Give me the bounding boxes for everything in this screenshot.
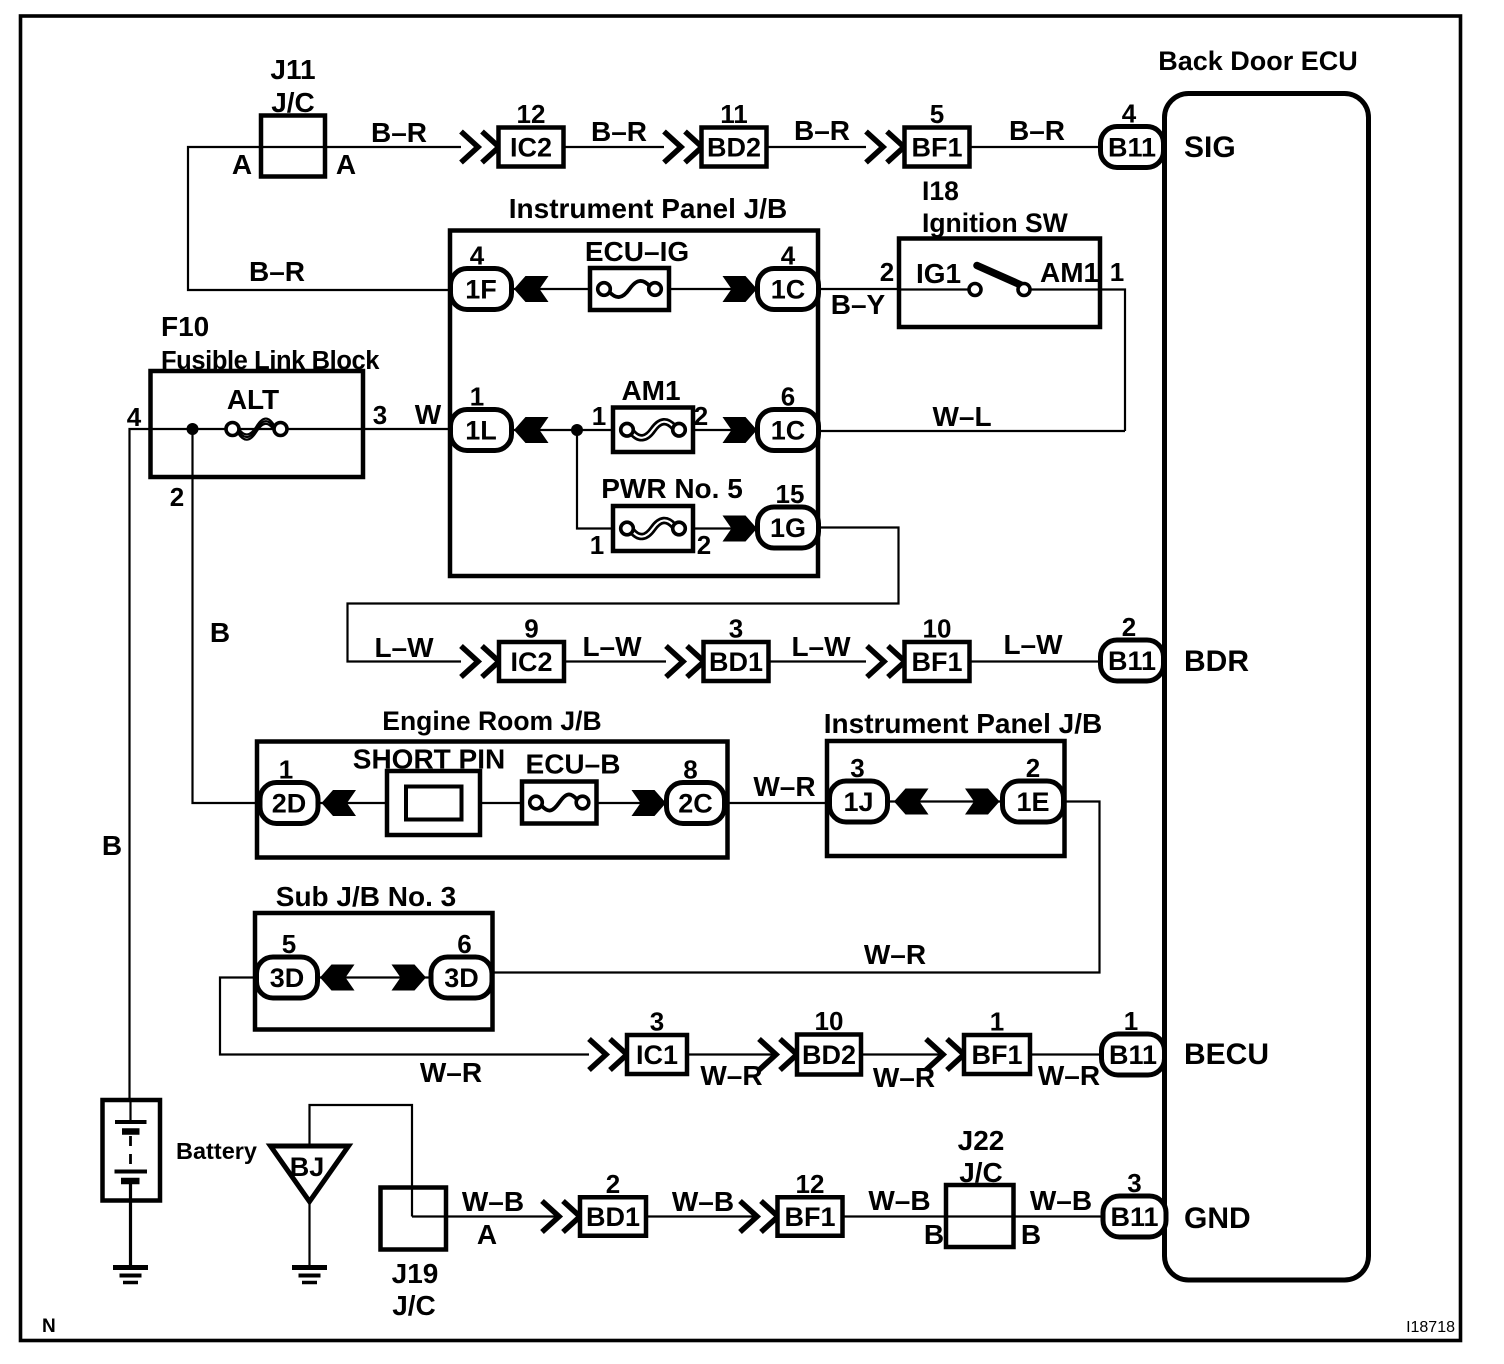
svg-text:B: B (102, 830, 122, 861)
connector B11 pin 1 (BECU) (1102, 1006, 1165, 1075)
wire to fuse PWR No.5 (577, 430, 613, 529)
svg-text:8: 8 (683, 755, 697, 785)
svg-text:11: 11 (720, 99, 748, 129)
svg-text:2C: 2C (678, 789, 713, 819)
wire (511, 429, 613, 431)
feed arrow (to 1F) (514, 276, 549, 302)
junction node (F10) (187, 423, 199, 435)
svg-text:10: 10 (923, 614, 952, 644)
svg-text:3: 3 (850, 753, 864, 783)
svg-text:2: 2 (606, 1169, 620, 1199)
Back Door ECU body (1165, 94, 1369, 1281)
svg-text:B11: B11 (1110, 1202, 1158, 1232)
wire (412, 1215, 561, 1217)
wire F10 pin2 to 2D (B) (193, 429, 262, 803)
wire 3D to BECU feed (W-R) (220, 978, 589, 1055)
connector BD1 pin 2 (580, 1169, 646, 1236)
connector 2C pin 8 (667, 755, 725, 824)
connector BD2 pin 11 (702, 99, 767, 167)
fusible link block F10 box (151, 371, 364, 477)
svg-text:AM1: AM1 (1040, 257, 1099, 288)
wire BJ to J19 (W-B) (310, 1105, 413, 1217)
svg-text:F10: F10 (161, 311, 209, 342)
svg-text:2: 2 (1026, 753, 1040, 783)
svg-text:B11: B11 (1108, 133, 1156, 163)
wire (363, 428, 452, 430)
feed arrow (to 2C) (632, 790, 667, 816)
svg-text:3: 3 (1127, 1168, 1141, 1198)
svg-text:10: 10 (815, 1006, 844, 1036)
svg-text:12: 12 (796, 1169, 825, 1199)
wire J11 to 1F (B-R) (188, 147, 452, 290)
svg-text:W–B: W–B (868, 1185, 930, 1216)
svg-text:BD1: BD1 (709, 647, 763, 677)
svg-text:L–W: L–W (374, 632, 434, 663)
svg-text:ALT: ALT (227, 384, 279, 415)
svg-text:3: 3 (729, 614, 743, 644)
connector BF1 pin 10 (905, 614, 970, 682)
switch contact AM1 (1018, 284, 1030, 296)
feed arrow (to 3D pin6) (392, 965, 427, 991)
wire 1C to ignition SW (B-Y) (818, 288, 899, 290)
svg-text:6: 6 (457, 929, 471, 959)
svg-text:12: 12 (517, 99, 546, 129)
wire (1030, 288, 1100, 290)
svg-text:B: B (1021, 1219, 1041, 1250)
svg-text:BF1: BF1 (911, 647, 962, 677)
connector BF1 pin 1 (964, 1007, 1030, 1075)
connector 1J pin 3 (830, 753, 888, 822)
switch lever (977, 266, 1022, 286)
wire (693, 527, 758, 529)
svg-text:2: 2 (170, 482, 184, 512)
connector BD2 pin 10 (797, 1006, 861, 1075)
fuse AM1 (613, 408, 693, 453)
connector 3D pin 5 (257, 929, 318, 998)
wire 1G to BDR feed (L-W) (348, 528, 899, 662)
wire connector chevrons (867, 646, 905, 677)
feed arrow (to 1G) (723, 516, 758, 542)
feed arrow (to 3D pin5) (320, 965, 355, 991)
svg-text:2: 2 (880, 257, 894, 287)
Engine Room J/B box (257, 742, 728, 858)
wire connector chevrons (589, 1039, 627, 1070)
svg-text:Instrument Panel J/B: Instrument Panel J/B (824, 708, 1103, 739)
svg-text:B–Y: B–Y (831, 289, 886, 320)
svg-text:J19: J19 (392, 1258, 439, 1289)
wire (970, 660, 1101, 662)
svg-text:B–R: B–R (591, 116, 647, 147)
svg-text:IC1: IC1 (636, 1040, 678, 1070)
feed arrow (to 1L) (514, 417, 549, 443)
svg-text:1: 1 (279, 755, 293, 785)
svg-text:4: 4 (1122, 99, 1137, 129)
wire connector chevrons (866, 132, 904, 163)
wire through F10 (151, 428, 363, 430)
wire (693, 429, 758, 431)
wire connector chevrons (740, 1201, 778, 1232)
svg-text:N: N (42, 1316, 56, 1337)
svg-text:W–B: W–B (672, 1186, 734, 1217)
wire (970, 146, 1101, 148)
svg-text:9: 9 (524, 614, 538, 644)
svg-text:Ignition SW: Ignition SW (922, 208, 1068, 238)
svg-text:B–R: B–R (1009, 115, 1065, 146)
feed arrow (to 2D) (322, 790, 357, 816)
svg-text:W–L: W–L (932, 401, 991, 432)
svg-text:4: 4 (470, 241, 485, 271)
wire connector chevrons (759, 1039, 797, 1070)
connector 1C pin 6 (758, 382, 819, 451)
wire (318, 802, 387, 804)
svg-text:W–B: W–B (1030, 1185, 1092, 1216)
svg-text:1: 1 (592, 401, 606, 431)
svg-text:BF1: BF1 (784, 1202, 835, 1232)
connector 1G pin 15 (758, 479, 819, 548)
svg-text:IC2: IC2 (510, 133, 552, 163)
connector BD1 pin 3 (704, 614, 769, 682)
svg-text:5: 5 (930, 99, 944, 129)
svg-text:ECU–B: ECU–B (526, 749, 621, 780)
svg-text:Instrument Panel J/B: Instrument Panel J/B (509, 193, 788, 224)
svg-text:5: 5 (282, 929, 296, 959)
svg-text:L–W: L–W (1003, 629, 1063, 660)
ignition switch I18 box (899, 239, 1100, 328)
wire (564, 146, 664, 148)
connector 1L pin 1 (451, 382, 512, 451)
wire BF1 to B11 through J22 (W-B) (843, 1215, 1104, 1217)
feed arrow (to 1J) (894, 789, 929, 815)
svg-text:W: W (415, 399, 442, 430)
connector 1C pin 4 (758, 241, 819, 310)
svg-text:1: 1 (1124, 1006, 1138, 1036)
fuse PWR No.5 (613, 506, 693, 551)
wire (767, 146, 866, 148)
svg-text:BD1: BD1 (586, 1202, 640, 1232)
connector 1F pin 4 (451, 241, 512, 310)
svg-text:1E: 1E (1016, 787, 1049, 817)
switch contact IG1 (969, 284, 981, 296)
ground junction BJ (271, 1146, 349, 1202)
svg-text:Battery: Battery (176, 1138, 257, 1164)
connector IC2 pin 12 (499, 99, 564, 167)
wire BJ to ground (308, 1202, 310, 1267)
wire (687, 1053, 778, 1055)
connector B11 pin 2 (BDR) (1101, 612, 1164, 681)
svg-text:B–R: B–R (249, 256, 305, 287)
svg-text:W–R: W–R (420, 1057, 482, 1088)
Instrument Panel J/B box (450, 231, 818, 577)
svg-text:Sub J/B No. 3: Sub J/B No. 3 (276, 881, 456, 912)
wire connector chevrons (666, 646, 704, 677)
wire connector chevrons (926, 1039, 964, 1070)
svg-text:J22: J22 (958, 1125, 1005, 1156)
fuse ECU-B (522, 782, 597, 824)
svg-text:3D: 3D (270, 963, 305, 993)
svg-text:6: 6 (781, 382, 795, 412)
wire 1E to 3D (W-R) (493, 802, 1100, 973)
wire (318, 976, 431, 978)
wire (597, 802, 668, 804)
wire (325, 146, 461, 148)
svg-text:BD2: BD2 (707, 133, 761, 163)
connector BF1 pin 12 (778, 1169, 843, 1236)
svg-text:BF1: BF1 (911, 133, 962, 163)
svg-text:W–B: W–B (462, 1186, 524, 1217)
svg-text:1L: 1L (465, 416, 497, 446)
svg-text:4: 4 (781, 241, 796, 271)
battery (103, 1100, 161, 1267)
wire connector chevrons (664, 132, 702, 163)
svg-text:B–R: B–R (794, 115, 850, 146)
svg-text:A: A (477, 1219, 497, 1250)
svg-text:2D: 2D (272, 789, 307, 819)
junction node (AM1/PWR) (571, 424, 583, 436)
svg-text:1J: 1J (843, 787, 873, 817)
svg-text:J/C: J/C (959, 1157, 1003, 1188)
svg-text:I18: I18 (922, 176, 959, 206)
wire (646, 1215, 759, 1217)
svg-text:BD2: BD2 (802, 1040, 856, 1070)
connector IC1 pin 3 (627, 1007, 687, 1075)
fusible link ALT (226, 419, 287, 440)
short pin (387, 771, 480, 835)
fuse ECU-IG (590, 268, 669, 310)
svg-text:W–R: W–R (1038, 1060, 1100, 1091)
feed arrow (to 1C pin6) (723, 417, 758, 443)
connector B11 pin 3 (GND) (1103, 1168, 1166, 1237)
svg-text:15: 15 (776, 479, 805, 509)
wire connector chevrons (461, 132, 499, 163)
wire AM1 to W-L node (1100, 290, 1125, 432)
svg-text:B: B (210, 617, 230, 648)
svg-text:3: 3 (650, 1007, 664, 1037)
svg-text:Back Door ECU: Back Door ECU (1158, 46, 1358, 76)
wire connector chevrons (542, 1201, 580, 1232)
connector 3D pin 6 (431, 929, 492, 998)
svg-text:L–W: L–W (791, 631, 851, 662)
junction connector J19 J/C (381, 1188, 447, 1250)
svg-text:IC2: IC2 (510, 647, 552, 677)
svg-text:Engine Room J/B: Engine Room J/B (382, 706, 601, 736)
ground (battery) (113, 1268, 148, 1283)
Instrument Panel J/B (2) box (827, 741, 1065, 856)
svg-text:BECU: BECU (1184, 1038, 1269, 1071)
svg-text:3D: 3D (444, 963, 479, 993)
svg-text:W–R: W–R (753, 771, 815, 802)
connector 1E pin 2 (1003, 753, 1064, 822)
svg-text:3: 3 (373, 400, 387, 430)
feed arrow (to 1E) (965, 789, 1000, 815)
svg-text:BF1: BF1 (971, 1040, 1022, 1070)
svg-text:B11: B11 (1109, 1040, 1157, 1070)
junction connector J11 J/C (261, 116, 325, 177)
svg-text:SIG: SIG (1184, 131, 1236, 164)
wire (669, 288, 758, 290)
svg-text:A: A (232, 149, 252, 180)
wire (887, 800, 1003, 802)
svg-text:W–R: W–R (864, 939, 926, 970)
connector 2D pin 1 (260, 755, 318, 824)
wire (899, 288, 969, 290)
connector B11 pin 4 (SIG) (1101, 99, 1164, 168)
wire (480, 802, 522, 804)
svg-text:L–W: L–W (582, 631, 642, 662)
feed arrow (to 1C) (723, 276, 758, 302)
svg-text:1: 1 (990, 1007, 1004, 1037)
svg-text:2: 2 (694, 401, 708, 431)
svg-text:I18718: I18718 (1406, 1319, 1455, 1336)
svg-text:B–R: B–R (371, 117, 427, 148)
svg-text:PWR No. 5: PWR No. 5 (601, 473, 743, 504)
svg-text:2: 2 (697, 530, 711, 560)
wire 1C to ignition SW (W-L) (818, 430, 1125, 432)
svg-text:W–R: W–R (700, 1060, 762, 1091)
svg-text:BDR: BDR (1184, 645, 1249, 678)
svg-text:ECU–IG: ECU–IG (585, 236, 689, 267)
svg-text:1: 1 (470, 382, 484, 412)
svg-text:1F: 1F (465, 275, 497, 305)
svg-text:J/C: J/C (392, 1290, 436, 1321)
ground (BJ) (292, 1268, 327, 1283)
wire (1030, 1053, 1102, 1055)
svg-text:1: 1 (590, 530, 604, 560)
junction connector J22 J/C (946, 1185, 1014, 1247)
svg-text:1C: 1C (771, 416, 806, 446)
Sub J/B No.3 box (255, 913, 493, 1030)
connector BF1 pin 5 (905, 99, 970, 167)
svg-text:1C: 1C (771, 275, 806, 305)
wire 2C to 1J (W-R) (725, 802, 831, 804)
svg-text:2: 2 (1122, 612, 1136, 642)
connector IC2 pin 9 (499, 614, 564, 682)
wire F10 pin4 to battery (B) (130, 429, 151, 1100)
svg-text:A: A (336, 149, 356, 180)
svg-text:1: 1 (1110, 257, 1124, 287)
svg-text:B11: B11 (1108, 646, 1156, 676)
svg-text:1G: 1G (770, 513, 806, 543)
svg-text:BJ: BJ (290, 1152, 325, 1182)
svg-text:B: B (924, 1219, 944, 1250)
svg-text:GND: GND (1184, 1202, 1251, 1235)
svg-text:IG1: IG1 (916, 258, 961, 289)
svg-text:J11: J11 (270, 54, 315, 85)
svg-text:4: 4 (127, 402, 142, 432)
wire (511, 288, 590, 290)
wire (564, 660, 666, 662)
svg-text:AM1: AM1 (621, 375, 680, 406)
wire connector chevrons (461, 646, 499, 677)
wire (861, 1053, 945, 1055)
wire (769, 660, 867, 662)
